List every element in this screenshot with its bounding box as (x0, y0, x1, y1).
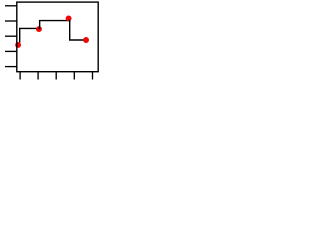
y tick 3 (5, 35, 17, 37)
x tick 3 (55, 72, 57, 80)
step segment 3 (corner at D3, down, right to D4) (69, 21, 86, 40)
marker D2 (36, 26, 42, 32)
x tick 2 (37, 72, 39, 80)
step chart figure (0, 0, 102, 87)
x tick 1 (19, 72, 21, 80)
x tick 4 (73, 72, 75, 80)
y tick 1 (5, 5, 17, 7)
step segment 2 (corner at D2, up, right to D3) (39, 21, 70, 29)
axes box (spines) (17, 2, 98, 72)
marker D4 (83, 37, 89, 43)
y tick 2 (5, 20, 17, 22)
step segment 1 (up from D1, right to D2) (20, 28, 40, 42)
y tick 5 (5, 66, 17, 68)
marker D1 (15, 42, 21, 48)
background (0, 0, 102, 87)
x tick 5 (92, 72, 94, 80)
marker D3 (66, 15, 72, 21)
y tick 4 (5, 50, 17, 52)
